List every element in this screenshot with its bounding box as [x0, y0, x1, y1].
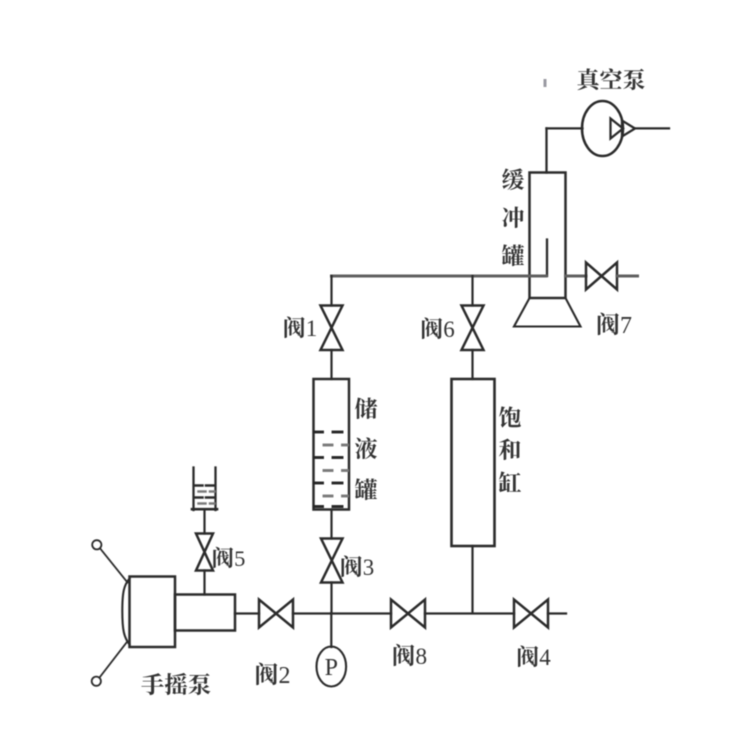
svg-text:阀1: 阀1 — [283, 310, 318, 343]
artifact speck — [544, 79, 547, 87]
hand pump cylinder — [175, 595, 235, 631]
svg-text:阀2: 阀2 — [255, 655, 291, 690]
label 储液罐 (storage tank) — [355, 391, 378, 505]
wire valve 1 to storage tank — [330, 350, 332, 379]
beaker left wall — [192, 468, 194, 511]
hand pump handle lower rod — [100, 641, 128, 677]
wire valve 3 to main pipe — [330, 583, 332, 614]
pump inner triangle 2 — [622, 121, 635, 137]
svg-text:手摇泵: 手摇泵 — [141, 666, 212, 700]
wire saturation cylinder to main pipe — [471, 546, 473, 613]
hand pump handle lower knob — [92, 677, 101, 686]
svg-text:储: 储 — [355, 391, 378, 424]
hand pump left cap arc — [122, 579, 129, 645]
svg-text:阀5: 阀5 — [212, 541, 246, 573]
valve V8 — [391, 600, 425, 628]
valve V4 — [514, 600, 548, 628]
svg-text:阀4: 阀4 — [516, 639, 551, 672]
hand pump body — [130, 577, 176, 648]
storage tank liquid dashes — [315, 432, 343, 507]
label 饱和缸 (saturation cylinder) — [499, 400, 522, 498]
beaker bottom — [192, 508, 217, 511]
svg-text:阀3: 阀3 — [340, 549, 375, 582]
wire manifold to valve 6 — [471, 276, 473, 306]
storage tank body — [314, 379, 350, 510]
svg-text:P: P — [325, 647, 338, 682]
wire manifold horizontal — [332, 275, 530, 278]
svg-text:阀7: 阀7 — [596, 305, 632, 340]
svg-text:缓: 缓 — [502, 162, 525, 195]
svg-text:真空泵: 真空泵 — [577, 62, 646, 95]
valve V6 — [462, 306, 484, 351]
wire manifold to valve 1 — [330, 276, 332, 306]
wire main pipe valve2 to valve8 — [293, 612, 391, 614]
wire beaker to valve 5 — [203, 510, 205, 534]
wire inside buffer tank to dip tube — [530, 275, 547, 278]
wire buffer tank to valve 7 — [566, 275, 587, 278]
buffer tank dip tube — [531, 240, 547, 277]
svg-text:和: 和 — [499, 432, 522, 465]
wire storage tank to valve 3 — [330, 510, 332, 539]
svg-text:液: 液 — [355, 431, 378, 464]
valve V3 — [321, 539, 343, 583]
buffer tank body — [530, 173, 566, 299]
saturation cylinder body — [452, 379, 495, 546]
buffer tank base trapezoid — [514, 298, 581, 327]
label 缓冲罐 (buffer tank) — [502, 162, 525, 271]
wire main pipe valve8 to valve4 — [425, 612, 514, 614]
pump inner triangle 1 — [611, 119, 624, 139]
svg-text:阀8: 阀8 — [392, 637, 427, 671]
svg-text:罐: 罐 — [355, 472, 378, 505]
svg-text:罐: 罐 — [502, 238, 525, 271]
valve V5 — [196, 534, 213, 571]
wire valve 6 to saturation cylinder — [471, 350, 473, 379]
wire main pipe after valve 4 — [548, 612, 566, 614]
svg-text:冲: 冲 — [502, 200, 525, 233]
beaker right wall — [214, 468, 216, 511]
valve V2 — [259, 600, 293, 628]
svg-text:饱: 饱 — [499, 400, 522, 433]
wire pump inlet horizontal — [547, 127, 583, 129]
hand pump handle upper rod — [100, 548, 128, 582]
wire pump outlet right — [634, 127, 669, 129]
wire junction to pressure gauge — [330, 613, 332, 647]
beaker liquid dashes — [195, 486, 214, 498]
wire valve 7 outlet — [617, 275, 638, 278]
pressure gauge P — [317, 647, 347, 687]
vacuum pump circle — [582, 101, 623, 156]
svg-text:缸: 缸 — [499, 465, 522, 498]
svg-text:阀6: 阀6 — [420, 311, 455, 344]
wire pump inlet vertical to buffer tank — [545, 128, 547, 172]
wire pump outlet to valve 2 — [235, 612, 259, 614]
valve V7 — [586, 263, 617, 290]
hand pump handle upper knob — [92, 540, 101, 549]
valve V1 — [321, 306, 343, 351]
wire valve 5 to pump cylinder — [203, 571, 205, 595]
